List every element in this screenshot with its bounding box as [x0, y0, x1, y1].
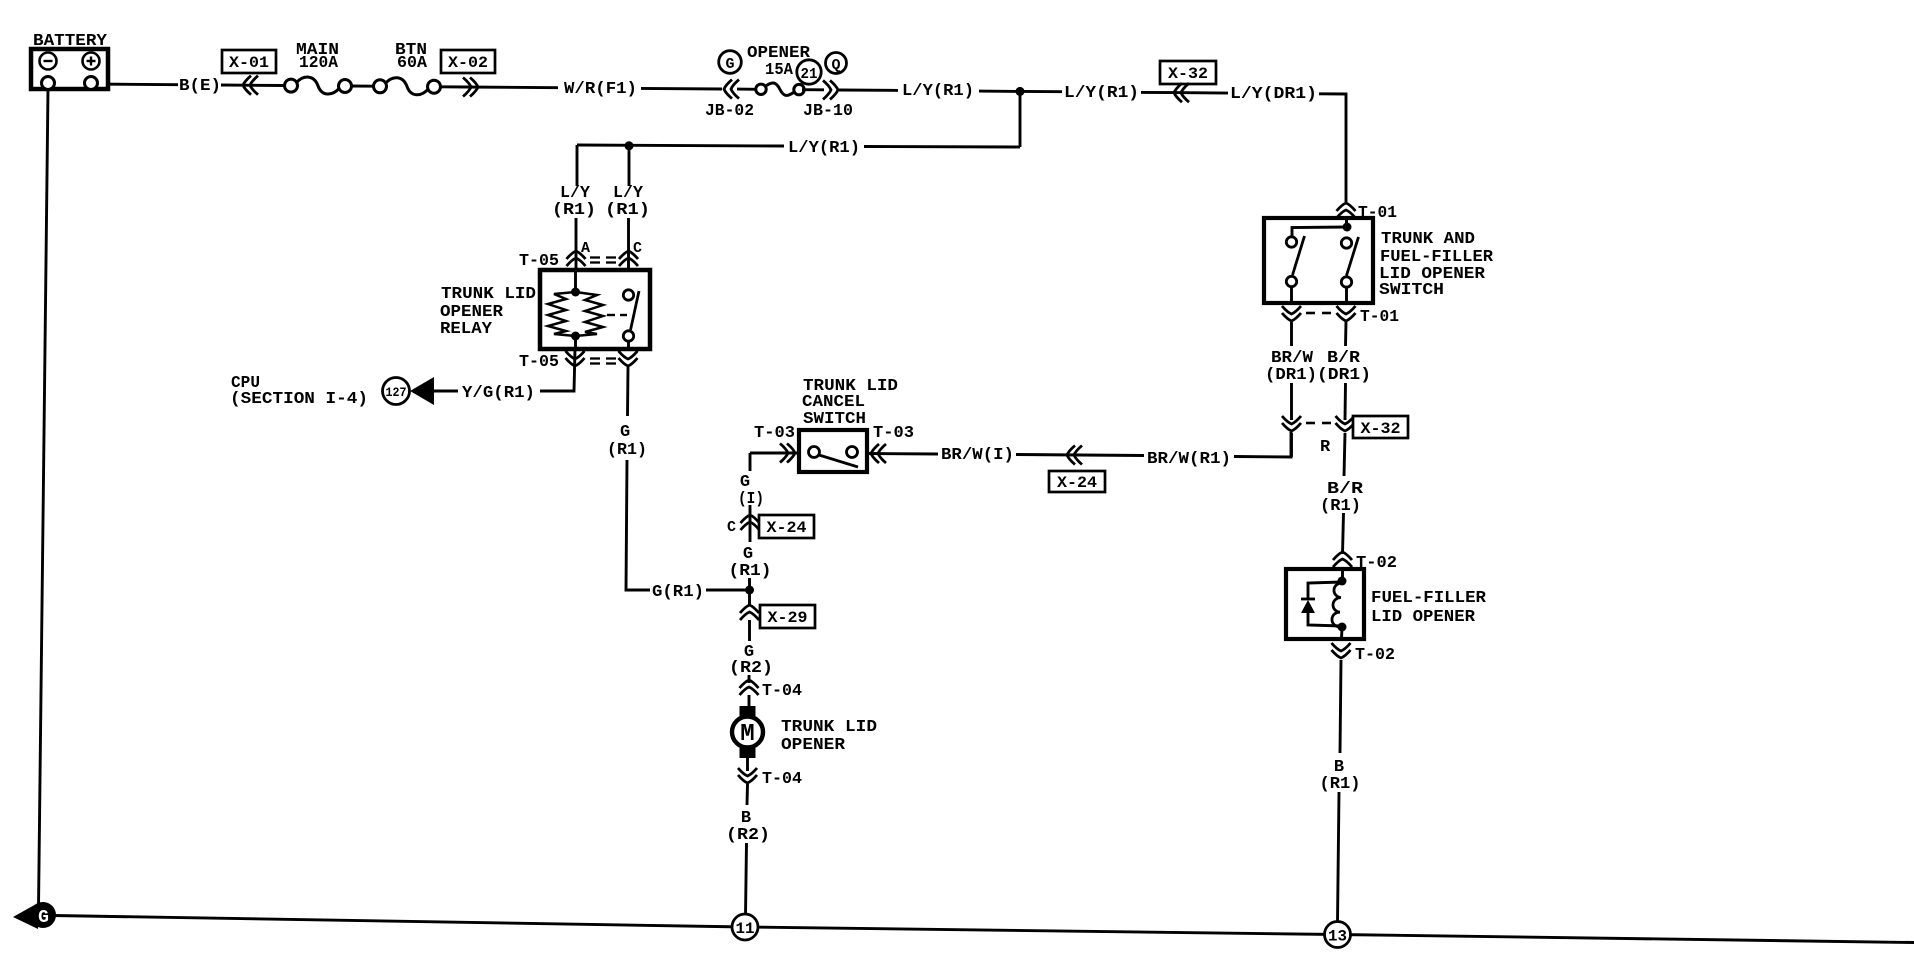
relay contact out [627, 341, 630, 349]
fuel-filler diode [1301, 599, 1315, 613]
switch box [1264, 218, 1373, 303]
trunk lid cancel switch label [802, 377, 898, 429]
connector X-29 box [760, 605, 815, 628]
svg-text:SWITCH: SWITCH [1379, 281, 1444, 300]
wire G(R1) to junction [706, 589, 748, 592]
fuel-filler lid opener box [1286, 569, 1364, 639]
fuel-filler diode branch bottom [1308, 613, 1342, 626]
connector T-02 bottom symbol [1332, 643, 1351, 753]
wire L/Y(R1) label 1 [902, 82, 974, 101]
svg-text:(R1): (R1) [1320, 497, 1361, 516]
wire drop from node [1019, 91, 1022, 147]
svg-text:(DR1): (DR1) [1317, 366, 1371, 385]
battery label [33, 32, 108, 51]
wire L/Y(DR1) label [1230, 85, 1317, 104]
connector X-01 box [222, 50, 276, 73]
fuse OPENER 15A label [747, 44, 811, 80]
svg-text:JB-10: JB-10 [803, 102, 853, 121]
fuel-filler solenoid coil [1332, 583, 1342, 627]
wire B(E) label [179, 77, 221, 96]
wire BR/W (DR1) label [1265, 349, 1317, 385]
wire corner to switch [1319, 94, 1346, 202]
trunk lid opener relay label [440, 285, 536, 339]
wire to L/Y(R1) [839, 89, 898, 92]
trunk lid opener motor label [781, 718, 877, 755]
wire mid rail left [577, 145, 784, 186]
connector X-24 symbol mid [1067, 446, 1082, 465]
connector T-01 bottom symbols [1282, 306, 1356, 321]
connector T-03 right label [873, 424, 914, 443]
svg-text:X-29: X-29 [768, 609, 808, 627]
wire BR/W corner [1290, 433, 1293, 457]
wire B/R to T-02 [1343, 513, 1344, 554]
svg-text:BR/W(I): BR/W(I) [941, 446, 1014, 465]
cancel switch contact right [847, 447, 858, 458]
fuse MAIN 120A [285, 77, 352, 94]
connector X-02 box [441, 50, 495, 73]
svg-text:T-03: T-03 [754, 424, 795, 443]
svg-text:T-02: T-02 [1355, 646, 1395, 665]
relay contact top [623, 290, 633, 300]
svg-text:W/R(F1): W/R(F1) [564, 80, 637, 99]
relay coil [548, 288, 603, 341]
svg-text:FUEL-FILLER: FUEL-FILLER [1371, 589, 1487, 608]
relay contact bottom [623, 331, 633, 341]
wire W/R(F1) label [564, 80, 637, 99]
fuse BTN 60A label [395, 41, 428, 73]
svg-text:OPENER: OPENER [781, 736, 846, 755]
switch node [1292, 223, 1352, 237]
wire drop from cancel switch [749, 453, 752, 471]
svg-text:X-24: X-24 [1057, 474, 1097, 492]
connector X-32 right symbols [1282, 416, 1355, 431]
trunk and fuel-filler lid opener switch label [1379, 230, 1494, 300]
svg-text:TRUNK LID: TRUNK LID [781, 718, 877, 737]
switch out L [1290, 287, 1293, 303]
wire L/Y(R1) label 2 [1064, 84, 1139, 103]
relay box [540, 270, 650, 349]
svg-text:L/Y(DR1): L/Y(DR1) [1230, 85, 1317, 104]
wire to node A1 [979, 90, 1018, 93]
junction block JB-02 label [705, 102, 754, 121]
svg-text:RELAY: RELAY [440, 320, 493, 339]
connector T-05 top symbols [567, 251, 639, 266]
trunk lid opener motor [732, 706, 763, 758]
wire into pin C [627, 218, 630, 270]
battery [31, 49, 108, 90]
switch blade R [1347, 237, 1359, 276]
svg-text:SWITCH: SWITCH [803, 410, 866, 429]
wire to T-04 [748, 675, 751, 683]
svg-text:T-05: T-05 [519, 353, 559, 372]
wire G (R1) relay label [607, 423, 647, 460]
connector T-02 top label [1356, 554, 1397, 573]
connector X-02 symbol [463, 78, 558, 97]
grid circle G [719, 51, 742, 74]
svg-text:15A: 15A [765, 61, 794, 80]
svg-text:G(R1): G(R1) [652, 583, 704, 602]
wire G (R2) label [729, 643, 773, 678]
wire to ground node 11 [746, 843, 747, 916]
wire into pin A [575, 218, 578, 270]
wire B/R column [1344, 321, 1347, 346]
relay coil out [574, 336, 577, 349]
wire to X-01 [221, 84, 243, 87]
svg-text:(R1): (R1) [1320, 775, 1361, 794]
svg-text:(R2): (R2) [729, 659, 773, 678]
node junction mid [625, 141, 634, 186]
wire L/Y (R1) label pin A [552, 184, 596, 220]
svg-text:11: 11 [736, 920, 755, 938]
svg-text:120A: 120A [299, 54, 339, 73]
svg-text:G: G [725, 56, 734, 73]
wire motor out [746, 758, 749, 771]
connector X-24 box C [759, 515, 814, 538]
node junction top [1016, 87, 1025, 96]
wire G (R1) label [729, 545, 772, 581]
connector T-04 bottom label [762, 770, 802, 789]
connector X-32 box right [1353, 416, 1408, 438]
fuel-filler lid opener label [1371, 589, 1487, 627]
fuse BTN 60A [374, 78, 441, 95]
fuel-filler diode branch top [1308, 582, 1342, 599]
wire between fuses [351, 85, 374, 88]
switch contact R top [1341, 238, 1351, 248]
fuse OPENER 15A [756, 83, 804, 95]
switch feed [1345, 218, 1348, 227]
svg-text:(SECTION I-4): (SECTION I-4) [230, 390, 368, 409]
wire G (I) label [738, 473, 764, 509]
svg-text:X-02: X-02 [448, 54, 488, 72]
wire B (R2) label [726, 809, 770, 845]
svg-text:L/Y(R1): L/Y(R1) [1064, 84, 1139, 103]
connector T-01 top symbol [1337, 203, 1356, 218]
wire mid rail right [864, 145, 1020, 148]
svg-text:T-04: T-04 [762, 770, 802, 789]
connector X-01 symbol [243, 76, 284, 95]
CPU pin circle 127 [383, 378, 410, 405]
wire BR/W column [1290, 321, 1293, 346]
relay coil feed [574, 270, 577, 292]
connector T-03 left symbol [780, 444, 795, 463]
svg-text:21: 21 [801, 66, 818, 83]
wire B (R1) label [1320, 758, 1361, 794]
svg-text:(R1): (R1) [552, 201, 596, 220]
connector JB-10 symbol [802, 80, 838, 99]
wire cancel switch left [750, 452, 799, 455]
wire to X-02 [440, 85, 466, 88]
ground symbol G [13, 902, 56, 929]
svg-text:X-32: X-32 [1361, 420, 1401, 438]
pin label C [633, 240, 642, 257]
pin label A [581, 240, 590, 257]
svg-text:Y/G(R1): Y/G(R1) [462, 384, 535, 403]
fuse MAIN 120A label [296, 41, 339, 73]
CPU arrow [410, 377, 434, 405]
wire L/Y (R1) label pin C [605, 184, 650, 220]
wire B/R down [1344, 433, 1345, 476]
wire Y/G(R1) label [462, 384, 535, 403]
svg-text:BR/W(R1): BR/W(R1) [1147, 450, 1231, 469]
svg-text:T-01: T-01 [1360, 308, 1399, 327]
connector T-05 bottom label [519, 353, 559, 372]
svg-text:(R1): (R1) [605, 201, 650, 220]
pin label C cancel [727, 519, 736, 536]
svg-text:13: 13 [1328, 928, 1347, 946]
svg-text:60A: 60A [397, 54, 428, 73]
wire G(R1) branch label [652, 583, 704, 602]
svg-text:R: R [1320, 438, 1331, 457]
grid circle Q [826, 53, 847, 75]
trunk lid cancel switch box [799, 430, 867, 472]
connector T-02 top symbol [1333, 552, 1352, 567]
svg-text:(R1): (R1) [607, 441, 647, 460]
connector X-32 box top [1160, 61, 1216, 84]
wire cancel switch right [867, 452, 938, 455]
cancel switch contact left [809, 447, 820, 458]
svg-text:C: C [727, 519, 736, 536]
ground node 11 [732, 914, 758, 940]
connector T-05 bottom symbols [566, 351, 638, 366]
svg-text:T-04: T-04 [762, 682, 802, 701]
connector T-05 top label [519, 252, 559, 271]
ground node 13 [1325, 922, 1351, 948]
svg-text:(R2): (R2) [726, 826, 770, 845]
svg-text:L/Y(R1): L/Y(R1) [788, 139, 860, 158]
wire to ground node 13 [1338, 792, 1340, 922]
svg-text:LID OPENER: LID OPENER [1371, 608, 1476, 627]
wire BR/W to right column [1234, 432, 1291, 457]
svg-text:B(E): B(E) [179, 77, 221, 96]
wire battery to ground [39, 89, 49, 908]
wire to CPU arrow [434, 390, 458, 393]
switch contact R bottom [1341, 277, 1351, 287]
switch contact L bottom [1286, 276, 1296, 286]
svg-text:JB-02: JB-02 [705, 102, 754, 121]
connector T-01 bottom label [1360, 308, 1399, 327]
svg-text:X-01: X-01 [229, 54, 269, 72]
svg-text:G: G [620, 423, 630, 442]
wire B/R (R1) label [1320, 480, 1364, 516]
connector T-03 right symbol [871, 444, 886, 463]
fuel-filler solenoid nodes [1338, 577, 1347, 632]
grid circle 21 [797, 60, 821, 84]
svg-text:L/Y(R1): L/Y(R1) [902, 82, 974, 101]
svg-text:X-32: X-32 [1168, 65, 1208, 83]
switch out R [1345, 287, 1348, 303]
switch blade L [1293, 236, 1305, 275]
wire BR/W(I) label [941, 446, 1014, 465]
svg-text:M: M [740, 721, 754, 748]
wire to JB-02 [641, 87, 722, 90]
svg-text:T-03: T-03 [873, 424, 914, 443]
fuel-filler solenoid feed [1341, 569, 1344, 581]
connector JB-02 symbol [724, 80, 758, 99]
fuel-filler solenoid out [1340, 627, 1343, 639]
connector T-02 bottom label [1355, 646, 1395, 665]
wire L/Y(R1) label 3 [788, 139, 860, 158]
svg-text:X-24: X-24 [767, 519, 807, 537]
battery B+ terminal wire [96, 83, 178, 87]
connector T-03 left label [754, 424, 795, 443]
svg-text:(DR1): (DR1) [1265, 366, 1317, 385]
wire relay contact down [626, 367, 629, 416]
svg-text:Q: Q [831, 57, 840, 74]
wire relay coil to CPU corner [540, 349, 575, 391]
CPU label [230, 374, 368, 409]
wire B/R to X-32 [1344, 383, 1347, 420]
svg-text:127: 127 [386, 385, 407, 400]
ground bus rail [53, 916, 1914, 943]
connector X-29 symbol [740, 605, 759, 641]
connector X-32 symbol top [1174, 83, 1228, 102]
connector T-04 top symbol [740, 680, 759, 708]
wire to X-32 [1141, 91, 1174, 94]
switch contact L top [1286, 237, 1296, 247]
wire B/R (DR1) label [1317, 349, 1371, 385]
wire to X-24 [1016, 455, 1144, 456]
svg-text:G: G [38, 908, 49, 928]
connector T-04 top label [762, 682, 802, 701]
wire from node [1022, 90, 1062, 93]
connector T-04 bottom symbol [738, 768, 757, 805]
cancel switch blade [819, 455, 858, 467]
svg-text:TRUNK LID: TRUNK LID [441, 285, 536, 304]
connector X-24 symbol C [741, 505, 760, 542]
wire G down to corner [626, 460, 650, 590]
connector T-01 top label [1358, 204, 1397, 223]
wire R label [1320, 438, 1331, 457]
wire BR/W to X-32 [1290, 383, 1293, 420]
junction block JB-10 label [803, 102, 853, 121]
node junction G(R1) [745, 578, 754, 606]
svg-text:TRUNK AND: TRUNK AND [1381, 230, 1475, 249]
wire BR/W(R1) label [1147, 450, 1231, 469]
relay blade [631, 291, 640, 330]
relay actuator dashes [607, 314, 627, 316]
connector X-24 box mid [1049, 471, 1105, 492]
